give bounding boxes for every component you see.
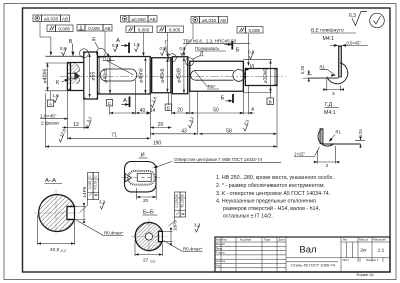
svg-text:14: 14: [150, 108, 156, 114]
svg-text:-0,2: -0,2: [150, 260, 156, 264]
notes: [216, 175, 334, 219]
dim row2: 13: [62, 127, 89, 129]
B-B roughness 3,2: [195, 225, 200, 233]
svg-text:4: 4: [251, 107, 254, 113]
datum B box under Ø30k6: [270, 86, 272, 98]
GD dim 0,25: [355, 136, 365, 149]
svg-text:И: И: [250, 64, 254, 70]
break line of broken-out section: [76, 64, 80, 85]
roughness 0,8 on end journal: [249, 52, 254, 60]
dim row1: 14: [136, 112, 151, 114]
svg-text:Масса: Масса: [359, 238, 368, 242]
general roughness mark top right: [349, 12, 384, 28]
svg-text:№ докум.: № докум.: [240, 239, 252, 242]
svg-text:Б: Б: [221, 96, 225, 102]
dim row1: 4: [243, 112, 254, 114]
shaft section Ø46 keyway zone: [98, 57, 151, 95]
datum B(Б) box on groove: [165, 104, 171, 110]
svg-text:Лист: Лист: [343, 258, 350, 262]
dim Ø55 collar: [89, 54, 91, 98]
svg-text:1,6: 1,6: [53, 93, 60, 98]
svg-text:М4:1: М4:1: [323, 36, 335, 42]
sections: [53, 37, 255, 142]
svg-text:13: 13: [73, 122, 79, 128]
svg-text:В: В: [175, 194, 179, 196]
detail V circle: [80, 49, 89, 58]
svg-text:ТВЧ h0,8...1,2; HRC45,50: ТВЧ h0,8...1,2; HRC45,50: [183, 39, 237, 44]
extension line above left journal: [46, 55, 84, 57]
svg-text:А–А: А–А: [45, 178, 56, 184]
VE groove arc: [327, 63, 348, 84]
center hole K cone: [75, 72, 80, 80]
svg-text:2кг: 2кг: [360, 248, 367, 254]
dim Ø45d9: [183, 57, 185, 93]
VE groove bar: [338, 46, 341, 77]
svg-text:0,25: 0,25: [358, 129, 363, 138]
dims: [40, 54, 277, 149]
fcf1 leader: [40, 22, 51, 53]
collar Ø55: [84, 52, 98, 99]
B-B keyway width extensions: [162, 231, 172, 241]
view I (center hole): [121, 153, 281, 204]
svg-text:50: 50: [213, 108, 219, 114]
shaft section with keyway 2: [190, 61, 244, 91]
dim row1: 50: [190, 112, 244, 114]
VE surface line: [308, 77, 339, 79]
dim row2: 20: [150, 127, 171, 129]
svg-text:3,2: 3,2: [99, 200, 106, 205]
fcf2 parallelism 0,005: [47, 25, 73, 32]
detail G,D (M4:1): [294, 102, 365, 168]
svg-text:⌀0,030: ⌀0,030: [44, 17, 59, 22]
svg-text:Изм.Лист: Изм.Лист: [216, 238, 228, 242]
svg-text:Масштаб: Масштаб: [373, 238, 386, 242]
svg-text:размеров отверстий - H14, вало: размеров отверстий - H14, валов - h14,: [223, 205, 320, 212]
B-B centerlines: [131, 219, 167, 254]
centerline of shaft: [60, 75, 286, 77]
svg-text:В: В: [180, 194, 184, 196]
A-A centerlines: [34, 190, 78, 236]
svg-text:⌀46c6: ⌀46c6: [103, 68, 109, 82]
feature control frames row: [33, 15, 263, 66]
svg-text:0,8: 0,8: [248, 50, 255, 55]
I center hole capsule hatched ring: [127, 170, 155, 185]
svg-text:190: 190: [153, 141, 162, 147]
end chamfer: [275, 69, 277, 86]
A-A fcf rotated boxes: [88, 173, 99, 200]
VE dim 0,25: [303, 70, 312, 82]
svg-text:3,2: 3,2: [194, 223, 201, 228]
I outer end body: [125, 162, 157, 192]
B-B keyway notch: [159, 231, 163, 243]
svg-text:⌀55: ⌀55: [91, 71, 97, 80]
A-A hatched circle: [39, 194, 75, 231]
svg-text:Сталь 45 ГОСТ 1050-74: Сталь 45 ГОСТ 1050-74: [291, 263, 336, 268]
svg-text:4. Неуказанные предельные откл: 4. Неуказанные предельные отклонения: [216, 198, 316, 204]
roughness 0,8 on d9: [181, 48, 186, 56]
svg-text:20: 20: [143, 198, 149, 203]
svg-text:1. HВ 250...280, кроме места,: 1. HВ 250...280, кроме места, указанного…: [216, 175, 334, 181]
svg-text:0,8: 0,8: [60, 46, 67, 51]
section B-B cutting mark bottom: [232, 94, 234, 103]
B-B dim 27: [135, 240, 162, 256]
title block: [215, 237, 390, 277]
svg-text:R1: R1: [336, 130, 342, 135]
svg-text:0,8: 0,8: [160, 46, 167, 51]
svg-text:В,Е повёрнуто: В,Е повёрнуто: [311, 28, 344, 34]
svg-text:Т0,16: Т0,16: [93, 181, 97, 190]
A-A keyway notch: [67, 206, 75, 221]
roughness 0,8 on k6: [161, 48, 166, 56]
svg-text:Т.контр.: Т.контр.: [216, 251, 226, 255]
B-B hatched circle: [135, 223, 162, 251]
GD dim 3: [314, 146, 340, 164]
svg-text:Утв.: Утв.: [216, 264, 221, 268]
A-A dim 40,5: [38, 215, 75, 245]
dim Ø45k6: [166, 58, 168, 92]
dim Ø46c6: [109, 57, 111, 93]
svg-text:R5*: R5*: [208, 84, 216, 90]
svg-text:10Р9: 10Р9: [173, 220, 178, 231]
svg-text:Формат А4: Формат А4: [357, 273, 374, 277]
dim row3: 43: [150, 133, 197, 135]
dim Ø40h6 left: [45, 63, 67, 91]
groove 1: [150, 57, 152, 95]
section B-B cutting mark top: [231, 41, 233, 50]
center hole K pilot outline: [68, 72, 75, 80]
svg-text:Б–Б: Б–Б: [143, 210, 154, 216]
roughness 2,5 groove far right: [244, 124, 249, 132]
svg-text:1:1: 1:1: [378, 248, 385, 254]
shaft section Ø40h6 left journal: [67, 63, 83, 91]
extension lines below shaft: [46, 80, 278, 148]
svg-text:⌀45d9: ⌀45d9: [177, 68, 183, 83]
dim row1: 40: [110, 107, 136, 115]
detail V,E (M4:1): [300, 28, 368, 97]
svg-text:3: 3: [332, 91, 335, 96]
dim row1: 20: [172, 112, 190, 114]
svg-text:0,005: 0,005: [248, 28, 260, 33]
A-A keyway width extensions: [75, 207, 86, 220]
fcf7 leader: [248, 34, 250, 63]
svg-text:Пров.: Пров.: [216, 246, 223, 250]
svg-text:1,6: 1,6: [134, 42, 141, 47]
svg-text:Н.контр.: Н.контр.: [216, 259, 227, 263]
svg-text:⌀30k6: ⌀30k6: [263, 69, 269, 83]
A-A roughness 3,2: [100, 202, 105, 210]
svg-text:43: 43: [181, 128, 187, 134]
roughness 3,2 groove right: [189, 121, 194, 129]
svg-text:3: 3: [326, 163, 329, 168]
I dim 20: [137, 186, 157, 200]
svg-text:АВ: АВ: [62, 17, 68, 22]
shaft section Ø30k6 end journal: [245, 69, 277, 86]
I centerline: [121, 177, 160, 179]
shaft main view: [46, 52, 287, 99]
roughness 1,6: [135, 44, 140, 52]
svg-text:2. * - размер обеспечивается и: 2. * - размер обеспечивается инструменто…: [216, 183, 325, 189]
fcf1 concentricity 0,030 AB: [33, 15, 70, 22]
section A-A cutting mark bottom: [129, 97, 131, 108]
step to keyway section: [188, 57, 190, 94]
GD surface line: [323, 143, 361, 145]
shaft section Ø45k6: [152, 58, 171, 93]
datum A box: [50, 92, 52, 101]
svg-text:Б: Б: [167, 105, 170, 110]
fcf3 leader: [105, 31, 109, 56]
svg-text:-0,2: -0,2: [60, 249, 66, 253]
B-B center hole: [145, 233, 152, 240]
svg-text:Б: Б: [236, 48, 240, 54]
svg-text:71: 71: [111, 133, 117, 139]
svg-text:0,025: 0,025: [88, 26, 100, 31]
dim Ø30k6: [243, 60, 271, 93]
detail G circle: [168, 54, 176, 62]
I countersink cone: [125, 174, 131, 182]
step to end journal: [243, 61, 245, 91]
svg-text:И: И: [141, 153, 145, 159]
svg-text:В: В: [69, 39, 73, 45]
svg-text:Е: Е: [92, 37, 96, 43]
svg-text:Вал: Вал: [299, 245, 316, 256]
svg-text:Листов 1: Листов 1: [366, 258, 379, 262]
svg-text:20: 20: [158, 122, 164, 128]
B-B fcf rotated boxes: [175, 192, 186, 217]
svg-text:0,025: 0,025: [175, 199, 179, 208]
datum C box: [106, 100, 112, 106]
svg-text:0,005: 0,005: [58, 27, 70, 32]
svg-text:R1: R1: [320, 64, 326, 69]
title block outline: [215, 237, 390, 272]
svg-text:М4:1: М4:1: [324, 110, 336, 116]
svg-text:58: 58: [226, 128, 232, 134]
svg-text:Подп.: Подп.: [264, 238, 271, 242]
svg-text:остальных ± IT 14/2.: остальных ± IT 14/2.: [223, 213, 273, 219]
fcf5 parallelism 0,005: [126, 26, 184, 33]
svg-text:0,8: 0,8: [112, 43, 119, 48]
groove 2: [171, 57, 173, 94]
svg-text:Полировать: Полировать: [195, 46, 220, 51]
keyway slot 2: [191, 71, 234, 81]
fcf6 concentricity 0,030 AB: [191, 17, 228, 24]
svg-text:R0,4max*: R0,4max*: [104, 231, 124, 236]
title block grid left: [215, 237, 390, 272]
svg-text:0,25: 0,25: [300, 65, 305, 74]
svg-text:АВ: АВ: [104, 26, 110, 31]
center hole text leader: [154, 161, 173, 168]
svg-text:Дата: Дата: [279, 238, 285, 242]
svg-text:2 фаски: 2 фаски: [41, 120, 59, 126]
svg-text:Т0,16: Т0,16: [180, 199, 184, 208]
svg-text:⌀45k6: ⌀45k6: [160, 68, 166, 82]
svg-text:АВ: АВ: [149, 17, 155, 22]
fcf7 parallelism 0,005: [237, 27, 263, 34]
svg-text:0,005: 0,005: [138, 28, 150, 33]
VE dim 3: [323, 79, 344, 92]
svg-text:1×15°: 1×15°: [294, 151, 305, 156]
GD groove arc: [318, 129, 334, 146]
GD groove bar: [320, 129, 323, 144]
I pilot hole rectangle: [137, 174, 151, 182]
shaft section Ø45d9: [172, 57, 188, 94]
fcf5 leader: [144, 33, 168, 55]
keyway slot 2 runout circle: [233, 70, 245, 82]
svg-text:Отверстие центровое Г М08 ГОСТ: Отверстие центровое Г М08 ГОСТ 14034-74: [174, 157, 263, 162]
svg-text:⌀40h6: ⌀40h6: [43, 69, 49, 84]
dim row4: 190: [46, 146, 278, 148]
svg-text:20: 20: [177, 108, 183, 114]
svg-text:АВ: АВ: [220, 18, 226, 23]
section view A-A: [34, 173, 124, 254]
keyway slot 1: [100, 69, 137, 81]
svg-text:6,3: 6,3: [349, 13, 356, 19]
center hole K broken-out section hatch: [68, 64, 80, 85]
svg-text:Разраб.: Разраб.: [216, 242, 226, 246]
roughness 1,6 bottom left: [54, 95, 59, 103]
title block right headers: [343, 238, 387, 262]
detail D circle: [186, 58, 194, 66]
dim row3: 58: [199, 133, 277, 135]
fcf3 perpendicularity 0,025 AB: [77, 25, 112, 32]
svg-text:⌀0,030: ⌀0,030: [202, 18, 217, 23]
roughness 0,8 left journal: [62, 48, 67, 56]
svg-text:Лит.: Лит.: [343, 238, 349, 242]
fcf4 concentricity 0,050 AB: [121, 16, 158, 23]
svg-text:0,025: 0,025: [88, 181, 92, 190]
svg-text:14Р9: 14Р9: [82, 186, 87, 197]
svg-text:А: А: [123, 98, 127, 104]
title block texts left: [216, 238, 285, 268]
dim row3: 71: [67, 137, 150, 139]
svg-text:R0,4max*: R0,4max*: [183, 247, 203, 252]
roughness 12,5 left bottom: [59, 135, 64, 143]
detail E circle: [96, 48, 105, 57]
svg-text:⌀0,050: ⌀0,050: [131, 17, 146, 22]
section A-A cutting mark top: [128, 43, 130, 54]
svg-text:0,005: 0,005: [169, 28, 181, 33]
svg-text:27: 27: [143, 258, 149, 264]
fcf6 leader: [184, 24, 193, 54]
svg-text:3. К - отверстие центровое А5: 3. К - отверстие центровое А5 ГОСТ 14034…: [216, 191, 330, 197]
svg-text:⌀46h6: ⌀46h6: [138, 68, 144, 83]
svg-text:40,5: 40,5: [50, 247, 60, 253]
svg-text:0,5×45°: 0,5×45°: [347, 40, 362, 45]
roughness 0,8 above A mark: [114, 44, 119, 52]
svg-text:В: В: [269, 99, 272, 104]
roughness 1,6 at groove1 below: [151, 100, 156, 108]
svg-text:Д: Д: [200, 52, 204, 58]
section view B-B: [131, 192, 203, 264]
roughness 3,2 row2: [87, 121, 92, 129]
dim Ø46h6: [144, 57, 146, 93]
